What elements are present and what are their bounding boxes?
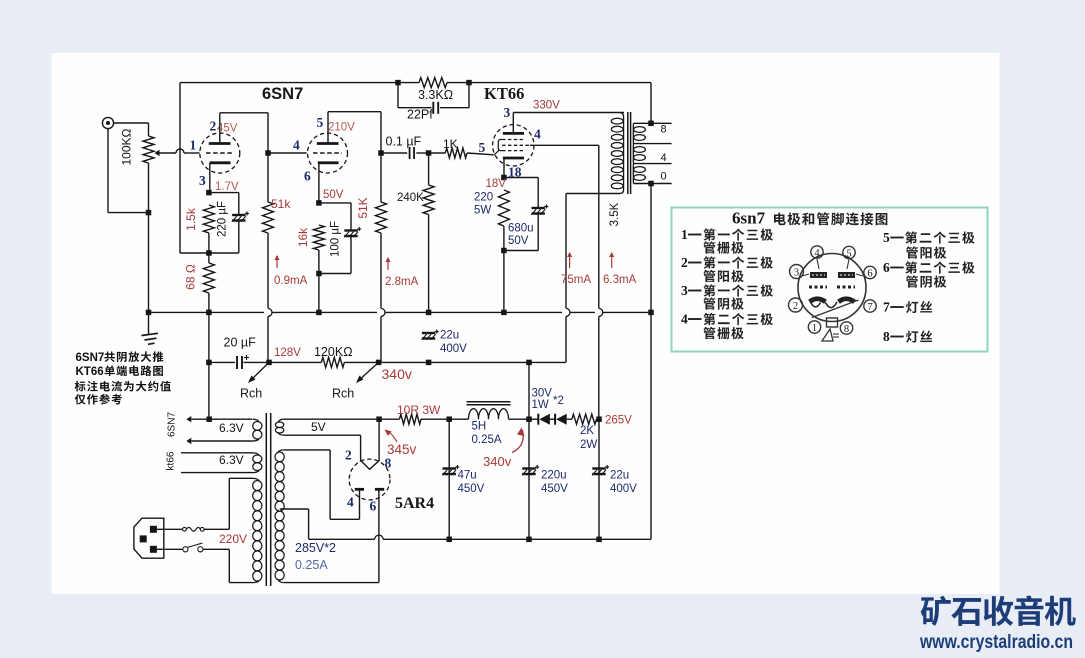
socket pin 8 circle xyxy=(840,322,852,334)
svg-text:51K: 51K xyxy=(356,197,370,218)
node ground bus 240K filter cap xyxy=(426,310,432,316)
wire 5V bottom lead to pin2 xyxy=(284,434,361,436)
wire HV center tap to B- bus xyxy=(280,508,309,510)
socket heater vee xyxy=(810,301,821,307)
wire coupling cap to grid node xyxy=(416,152,428,154)
svg-text:4: 4 xyxy=(534,127,541,142)
wire 5V top lead to cathode node xyxy=(284,418,379,420)
node KT66 cathode bottom xyxy=(501,248,507,254)
capacitor 22u 400V filter xyxy=(422,332,435,334)
resistor 2K 2W screen feed xyxy=(572,414,597,424)
svg-text:1K: 1K xyxy=(443,137,458,151)
mains plug symbol xyxy=(134,518,164,558)
svg-text:1W: 1W xyxy=(532,399,549,411)
node ground bus pot xyxy=(146,310,152,316)
resistor 220ohm 5W KT66 cathode xyxy=(498,190,509,226)
node 265V screen node xyxy=(596,416,602,422)
svg-text:240K: 240K xyxy=(397,192,424,204)
resistor 16k cathode2 xyxy=(313,225,324,250)
svg-text:5: 5 xyxy=(479,140,486,155)
diode zener 30V no2 xyxy=(550,418,555,420)
node B- 47u xyxy=(446,537,452,543)
V2 control grid dash rows xyxy=(502,144,530,146)
capacitor 680uF KT66 bypass xyxy=(532,207,545,209)
tube V1b 6SN7 second triode envelope xyxy=(308,133,348,173)
socket internal cathodes xyxy=(809,297,826,303)
V2 grid left bracket and entry xyxy=(498,140,502,151)
socket drawing circle xyxy=(798,254,866,322)
wire ground drop to 20uF xyxy=(208,312,210,362)
node cathode2 bottom xyxy=(316,271,322,277)
info box 6sn7 pinout diagram frame xyxy=(672,208,988,352)
capacitor 220u 450V xyxy=(522,467,535,469)
wire V1b plate up and over to coupling cap xyxy=(327,112,329,144)
tube V3 5AR4 rectifier envelope xyxy=(349,459,390,500)
resistor 51K V1b plate load xyxy=(376,202,387,233)
wire HV bottom lead to pin6 xyxy=(284,582,379,584)
wire secondary tap 8 xyxy=(633,122,671,124)
wire plug to fuse xyxy=(157,528,183,530)
capacitor 22u 400V screen filter xyxy=(592,467,605,469)
svg-text:3: 3 xyxy=(794,268,799,279)
wire V1a plate up and over to V1b grid xyxy=(219,113,221,144)
svg-text:68 Ω: 68 Ω xyxy=(184,264,198,290)
V2 plate bar xyxy=(503,132,524,135)
svg-text:30V: 30V xyxy=(532,388,553,400)
svg-text:1: 1 xyxy=(190,138,197,153)
wire feedback top rail from 8-ohm tap to first cathode xyxy=(180,82,419,84)
socket pin 6 circle xyxy=(864,266,876,278)
wire hop grid over feedback line xyxy=(176,149,184,153)
wire 47u drop xyxy=(448,419,450,539)
wire 240K to ground bus xyxy=(428,215,430,313)
node heater winding ground xyxy=(206,416,212,422)
wire 0 tap down to ground bus and B- bus xyxy=(650,184,652,540)
transformer T1 core xyxy=(265,413,267,586)
wire jack shield down xyxy=(107,129,109,213)
svg-text:50V: 50V xyxy=(508,235,529,247)
capacitor 20uF first filter xyxy=(236,356,238,369)
wire cathode RC bottom xyxy=(503,226,505,251)
wire cathode RC top xyxy=(504,177,538,179)
svg-text:6.3V: 6.3V xyxy=(219,421,244,435)
node plate2 junction xyxy=(378,150,384,156)
node feedback takeoff 8 ohm tap xyxy=(648,121,654,127)
svg-text:Rch: Rch xyxy=(332,387,354,401)
socket key xyxy=(827,318,838,327)
svg-text:3.3KΩ: 3.3KΩ xyxy=(418,88,453,102)
socket pin 4 circle xyxy=(811,246,823,258)
svg-text:340v: 340v xyxy=(483,454,512,469)
svg-text:2: 2 xyxy=(793,301,798,312)
transformer T1 winding 6.3V no1 xyxy=(253,422,262,431)
wire OPT primary bottom to B+ xyxy=(566,193,620,195)
pot wiper arrow to grid xyxy=(155,150,160,156)
svg-text:1.5k: 1.5k xyxy=(184,207,198,231)
capacitor 100uF cathode2 bypass xyxy=(344,229,357,231)
choke 5H core lines xyxy=(467,401,511,403)
svg-text:22Pf: 22Pf xyxy=(407,108,433,122)
socket pin 7 circle xyxy=(864,300,876,312)
svg-text:400V: 400V xyxy=(440,343,467,355)
V1b cathode bar xyxy=(318,161,339,164)
socket internal grids xyxy=(809,286,827,289)
svg-text:2.8mA: 2.8mA xyxy=(385,276,419,288)
svg-text:1: 1 xyxy=(681,227,688,242)
label note line1 xyxy=(75,381,86,392)
svg-text:220V: 220V xyxy=(219,532,247,546)
input jack J1 xyxy=(102,117,113,128)
svg-text:400V: 400V xyxy=(610,483,637,495)
svg-text:7: 7 xyxy=(883,300,890,315)
wire B- bottom bus xyxy=(309,538,375,540)
V3 right plate bar xyxy=(375,488,384,491)
watermark site logo chinese xyxy=(921,596,951,626)
capacitor 47u 450V xyxy=(443,467,456,469)
node 47u takeoff xyxy=(446,416,452,422)
V1b grid dashes xyxy=(313,152,342,154)
node choke output to B+ riser xyxy=(526,360,532,366)
svg-text:20 µF: 20 µF xyxy=(224,336,257,350)
svg-text:1.7V: 1.7V xyxy=(215,181,239,193)
svg-text:680u: 680u xyxy=(508,223,534,235)
wire secondary tap mid1 xyxy=(633,143,671,145)
svg-text:www.crystalradio.cn: www.crystalradio.cn xyxy=(919,632,1073,653)
V1b plate bar xyxy=(317,142,339,145)
wire pin2 lead xyxy=(360,460,362,463)
diode zener 30V no1 xyxy=(529,418,538,420)
V3 left plate bar xyxy=(355,488,364,491)
svg-text:0.9mA: 0.9mA xyxy=(274,275,308,287)
node ground bus 16k xyxy=(316,310,322,316)
svg-text:2: 2 xyxy=(210,119,217,134)
wire main ground bus xyxy=(149,311,265,313)
svg-text:0.1 µF: 0.1 µF xyxy=(386,135,422,149)
svg-text:210V: 210V xyxy=(328,122,355,134)
wire HV top lead to pin4 xyxy=(284,449,330,451)
wire heater2 leads xyxy=(181,452,253,454)
wire 51K down to B+ crossing ground bus xyxy=(380,233,382,308)
svg-text:6sn7: 6sn7 xyxy=(732,209,766,228)
svg-text:8: 8 xyxy=(883,329,890,344)
svg-text:340v: 340v xyxy=(382,366,412,382)
svg-text:22u: 22u xyxy=(610,470,629,482)
transformer T1 winding 5V rectifier heater xyxy=(275,422,283,428)
svg-text:kt66: kt66 xyxy=(166,451,177,470)
fuse symbol xyxy=(183,527,187,531)
transformer T1 winding 6.3V no2 KT66 heater xyxy=(253,455,262,463)
resistor 240K grid leak xyxy=(423,185,434,215)
svg-text:220u: 220u xyxy=(541,470,567,482)
svg-text:4: 4 xyxy=(661,152,667,164)
svg-text:4: 4 xyxy=(347,495,354,510)
wire secondary tap mid2 xyxy=(633,163,671,165)
wire 51k down to B+ node crossing ground bus xyxy=(267,233,269,308)
svg-text:KT66: KT66 xyxy=(76,366,104,378)
svg-text:5: 5 xyxy=(846,249,851,260)
label current 75mA with arrow xyxy=(569,253,571,268)
node rectifier cathode junction xyxy=(376,416,382,422)
svg-text:Rch: Rch xyxy=(240,387,262,401)
wire grid node down to 240K xyxy=(428,153,430,185)
svg-text:75mA: 75mA xyxy=(561,274,591,286)
node feedback-resistor left xyxy=(395,80,401,86)
socket internal plates xyxy=(810,272,827,278)
svg-text:5V: 5V xyxy=(311,420,326,434)
svg-text:51k: 51k xyxy=(271,197,291,211)
svg-text:10R 3W: 10R 3W xyxy=(397,403,441,417)
node 0 tap ground xyxy=(648,181,654,187)
svg-text:2: 2 xyxy=(681,255,688,270)
svg-text:120KΩ: 120KΩ xyxy=(314,345,353,359)
label current 0.9mA with arrow xyxy=(276,256,278,268)
svg-text:330V: 330V xyxy=(533,100,560,112)
svg-text:8: 8 xyxy=(661,124,667,136)
wire jack hot to pot top xyxy=(114,122,149,124)
wire KT66 screen to 265V node xyxy=(530,144,599,146)
svg-text:6: 6 xyxy=(370,499,377,514)
V1a cathode bar xyxy=(210,161,231,164)
svg-text:100KΩ: 100KΩ xyxy=(120,128,134,165)
wire B+ 128V-340v distribution line xyxy=(209,361,235,363)
node KT66 grid leak junction xyxy=(426,150,432,156)
wire heater1 bottom lead with arrow xyxy=(186,438,191,444)
svg-text:6SN7: 6SN7 xyxy=(262,85,303,103)
resistor 3.3Kohm feedback xyxy=(419,78,447,88)
V1a plate bar xyxy=(209,142,231,145)
ground symbol xyxy=(142,333,159,344)
wire KT66 cathode down xyxy=(503,158,505,178)
svg-text:5W: 5W xyxy=(474,205,491,217)
tube V1a 6SN7 first triode envelope xyxy=(200,133,240,173)
wire cathode2 network bottom xyxy=(318,250,320,274)
svg-text:4: 4 xyxy=(814,248,820,259)
svg-text:KT66: KT66 xyxy=(484,84,524,103)
svg-text:220 µF: 220 µF xyxy=(217,201,229,237)
svg-text:1: 1 xyxy=(812,323,817,334)
socket pin 1 circle xyxy=(808,321,820,333)
V2 screen grid dashes xyxy=(502,139,525,141)
capacitor 0.1uF coupling xyxy=(409,147,411,159)
wire pin8 lead to PS line xyxy=(378,419,380,461)
resistor 120K decoupling xyxy=(321,357,344,367)
node pot bottom jack shield junction xyxy=(146,210,152,216)
transformer T2 output primary winding xyxy=(623,117,625,190)
node ground bus 68ohm xyxy=(206,310,212,316)
socket getter mark xyxy=(822,329,833,341)
socket pin 3 circle xyxy=(790,265,804,279)
node 340v junction xyxy=(376,360,382,366)
capacitor 22pF feedback xyxy=(397,83,399,108)
wire plug to switch xyxy=(157,548,183,550)
svg-text:4: 4 xyxy=(293,138,300,153)
svg-text:0: 0 xyxy=(661,171,667,183)
svg-text:18V: 18V xyxy=(486,178,507,190)
wire secondary tap 0 xyxy=(633,183,671,185)
V1a grid dashes xyxy=(206,152,234,154)
svg-text:6: 6 xyxy=(304,169,311,184)
svg-text:220: 220 xyxy=(474,192,493,204)
node B- 220u xyxy=(526,537,532,543)
svg-text:2K: 2K xyxy=(580,425,594,437)
svg-text:47u: 47u xyxy=(458,470,477,482)
wire cathode network bottom with feedback tie xyxy=(180,252,239,254)
svg-text:345v: 345v xyxy=(387,442,417,457)
wire KT66 plate to OPT primary xyxy=(512,113,514,134)
wire 10R to 47u node xyxy=(421,418,449,420)
wire cathode2 network top xyxy=(319,202,351,204)
wire 265V node down through 22u no2 xyxy=(598,419,600,539)
svg-text:2: 2 xyxy=(345,448,352,463)
node ground bus KT66 cathode xyxy=(501,310,507,316)
svg-text:6: 6 xyxy=(883,260,890,275)
node KT66 cathode junction xyxy=(501,175,507,181)
svg-text:450V: 450V xyxy=(541,483,568,495)
svg-text:0.25A: 0.25A xyxy=(472,434,502,446)
choke 5H winding xyxy=(449,418,468,420)
wire cathode node to 10R xyxy=(379,418,399,420)
white schematic sheet xyxy=(52,53,1000,594)
svg-text:450V: 450V xyxy=(458,483,485,495)
node 22u filter top xyxy=(426,360,432,366)
svg-text:6.3mA: 6.3mA xyxy=(603,274,637,286)
svg-text:5H: 5H xyxy=(472,421,487,433)
V3 filament V xyxy=(361,461,379,469)
wire B+ riser to choke output node xyxy=(528,362,530,419)
wire plate1 to V1b grid direct coupling xyxy=(268,152,307,154)
transformer T1 winding 220V primary xyxy=(253,481,262,491)
transformer T2 secondary winding sections xyxy=(632,126,634,142)
node choke output 340v xyxy=(526,416,532,422)
svg-text:*2: *2 xyxy=(553,395,564,407)
svg-text:50V: 50V xyxy=(323,189,344,201)
svg-text:265V: 265V xyxy=(605,415,632,427)
svg-text:6SN7: 6SN7 xyxy=(167,412,178,437)
socket pin1 wire to plate xyxy=(817,259,819,269)
resistor 1K grid stopper xyxy=(429,152,446,154)
socket heater lead diagonal to pin7 xyxy=(812,300,859,318)
wire pin4 plate lead xyxy=(359,489,361,490)
svg-text:22u: 22u xyxy=(440,330,459,342)
node ground bus 0-tap xyxy=(648,310,654,316)
node feedback-resistor right xyxy=(466,80,472,86)
node cathode2 top xyxy=(316,200,322,206)
svg-text:5AR4: 5AR4 xyxy=(395,495,434,512)
svg-text:16k: 16k xyxy=(296,227,310,247)
svg-text:3: 3 xyxy=(681,283,688,298)
svg-text:100 µF: 100 µF xyxy=(330,221,342,257)
node B- 22u xyxy=(596,537,602,543)
node cathode1 bottom xyxy=(206,250,212,256)
V2 cathode bar xyxy=(503,157,524,160)
capacitor 220uF cathode bypass xyxy=(232,214,245,216)
transformer T1 winding HV 285V*2 xyxy=(275,452,284,462)
svg-text:6.3V: 6.3V xyxy=(219,453,244,467)
wire pin6 plate lead xyxy=(378,489,380,490)
wire heater 6.3V feed with arrows xyxy=(186,416,191,422)
arrow Rch left xyxy=(250,362,270,381)
node cathode1 top xyxy=(206,190,212,196)
svg-text:5: 5 xyxy=(317,115,324,130)
switch symbol xyxy=(183,547,188,552)
svg-text:8: 8 xyxy=(844,324,849,335)
svg-text:6SN7: 6SN7 xyxy=(76,352,105,364)
svg-text:5: 5 xyxy=(883,230,890,245)
resistor 10R 3W xyxy=(400,414,422,424)
node plate1 load junction xyxy=(265,150,271,156)
svg-text:8: 8 xyxy=(385,456,392,471)
svg-text:2W: 2W xyxy=(580,439,597,451)
arrow Rch right xyxy=(358,362,379,381)
wire 220V primary bottom lead to switch xyxy=(228,549,230,582)
svg-text:285V*2: 285V*2 xyxy=(295,541,336,555)
wire plate2 to coupling cap xyxy=(381,152,407,154)
svg-text:3: 3 xyxy=(504,105,511,120)
node 20uF ground side xyxy=(206,360,212,366)
resistor 68ohm feedback leg xyxy=(208,253,210,263)
socket pin 5 circle xyxy=(843,246,855,258)
wire 220V primary top lead to fuse xyxy=(229,477,252,479)
wire cathode network top xyxy=(209,192,239,194)
V1b cathode lead xyxy=(318,163,320,203)
transformer T2 core xyxy=(627,112,629,194)
wire zeners to 2K xyxy=(567,418,572,420)
svg-text:7: 7 xyxy=(867,302,872,313)
socket pin 2 circle xyxy=(789,298,803,312)
svg-text:4: 4 xyxy=(681,312,688,327)
node 128V junction xyxy=(266,360,272,366)
svg-text:3.5K: 3.5K xyxy=(609,202,621,226)
label current 6.3mA with arrow xyxy=(611,253,613,268)
label note line2 xyxy=(75,394,86,405)
potentiometer 100K volume xyxy=(143,136,154,163)
svg-text:6: 6 xyxy=(867,269,872,280)
tube V2 KT66 envelope xyxy=(493,125,534,166)
label current 2.8mA with arrow xyxy=(387,258,389,270)
resistor 51k V1a plate load xyxy=(263,202,274,233)
V1a cathode lead xyxy=(209,163,211,193)
svg-text:3: 3 xyxy=(199,173,206,188)
svg-text:128V: 128V xyxy=(274,347,301,359)
wire choke node down through 220u xyxy=(528,419,530,539)
svg-text:0.25A: 0.25A xyxy=(295,558,328,572)
resistor 1.5k cathode xyxy=(203,205,214,233)
